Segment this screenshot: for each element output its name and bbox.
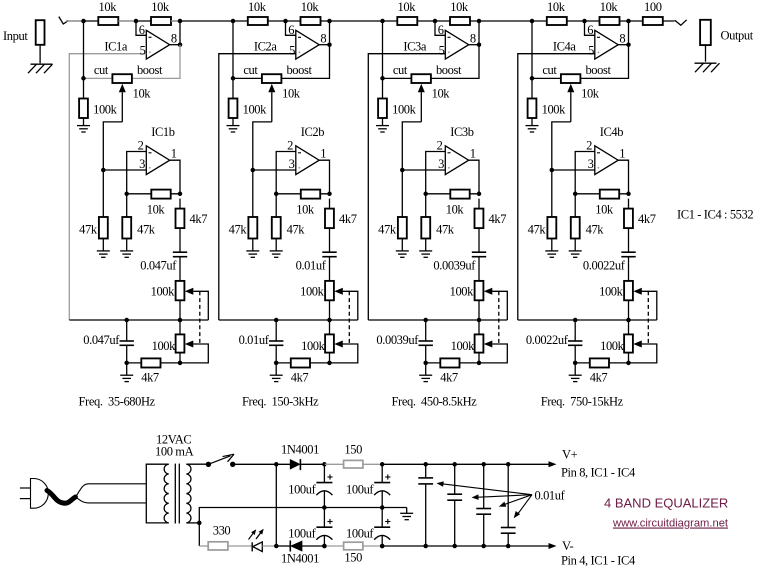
capacitor 0.01uf decoupling 4 — [507, 464, 509, 527]
switch S1 — [206, 462, 211, 467]
svg-text:boost: boost — [436, 63, 462, 77]
svg-text:6: 6 — [139, 23, 145, 37]
wire LED to node — [262, 545, 276, 547]
svg-text:boost: boost — [585, 63, 611, 77]
svg-text:5: 5 — [439, 43, 445, 57]
node bottom row left — [423, 361, 428, 366]
resistor R45 47k — [547, 217, 556, 239]
node decoupling bottom — [452, 544, 457, 549]
node bottom — [380, 544, 385, 549]
svg-text:47k: 47k — [137, 223, 156, 237]
svg-text:330: 330 — [213, 524, 231, 538]
wire output down to boost — [580, 45, 628, 79]
wire Vminus rail — [382, 545, 550, 547]
node mid junction — [134, 19, 139, 24]
svg-text:Output: Output — [721, 29, 754, 43]
svg-text:100k: 100k — [599, 284, 624, 298]
svg-text:4k7: 4k7 — [440, 371, 458, 385]
potentiometer VR4 10k cut-boost — [561, 74, 581, 83]
potentiometer VR11 100k — [176, 281, 185, 300]
svg-text:10k: 10k — [547, 0, 566, 14]
svg-text:10k: 10k — [147, 203, 166, 217]
ground below 47k right — [569, 250, 582, 252]
node decoupling top — [481, 462, 486, 467]
svg-text:2: 2 — [586, 138, 592, 152]
AC plug body — [31, 479, 49, 509]
wire pin3 input — [552, 169, 595, 171]
resistor R18 4k7 — [127, 362, 180, 364]
svg-text:V+: V+ — [562, 447, 578, 461]
wire pin1 output — [319, 160, 329, 194]
svg-text:Freq. 450-8.5kHz: Freq. 450-8.5kHz — [392, 394, 478, 408]
wire 47k to ground — [551, 239, 553, 251]
svg-text:8: 8 — [470, 32, 476, 46]
capacitor C22 0.01uf — [275, 320, 277, 341]
wire output down to boost — [132, 45, 180, 79]
transformer T1 core — [174, 464, 176, 524]
wire 47k2 to ground — [126, 239, 128, 251]
wire pin1 output — [170, 160, 180, 194]
svg-text:10k: 10k — [248, 0, 267, 14]
svg-text:3: 3 — [139, 157, 145, 171]
potentiometer VR1 10k cut-boost — [112, 74, 131, 83]
wire 4k7 to cap — [329, 228, 331, 252]
node decoupling top — [452, 462, 457, 467]
wire pin3 input — [103, 169, 146, 171]
resistor R44 10k feedback — [600, 190, 619, 199]
wire pin1 output — [469, 160, 479, 194]
callout arrows to decoupling caps — [441, 484, 532, 495]
node LED junction — [274, 544, 279, 549]
cord fork top — [75, 484, 146, 497]
ground below 47k left — [545, 250, 558, 252]
output jack tip symbol — [675, 20, 687, 26]
op-amp minus mark — [448, 36, 451, 38]
svg-text:4k7: 4k7 — [190, 212, 208, 226]
node cut rail junction — [81, 76, 86, 81]
ground output chassis — [695, 62, 717, 64]
op-amp IC3b — [445, 146, 468, 175]
wire pot2 to bottom row — [329, 353, 331, 363]
wire pin2 input — [575, 152, 595, 218]
wire wiper jog to inverting path — [103, 122, 122, 217]
wire bus — [518, 319, 657, 321]
wire feedback row — [127, 193, 180, 195]
node pin8 output — [477, 42, 482, 47]
node bus ladder — [477, 318, 482, 323]
capacitor 100uf negative rail — [323, 508, 325, 528]
op-amp IC1b — [146, 146, 169, 175]
ground mid rail — [406, 508, 408, 514]
svg-text:cut: cut — [542, 63, 557, 77]
potentiometer VR41 100k — [624, 281, 633, 300]
node feedback right — [327, 192, 332, 197]
wire pot1 wiper — [484, 288, 493, 295]
svg-text:6: 6 — [288, 23, 294, 37]
svg-text:IC4b: IC4b — [600, 125, 624, 139]
svg-text:6: 6 — [438, 23, 444, 37]
wire bus — [219, 319, 358, 321]
node mid junction — [433, 19, 438, 24]
node pin8 output — [626, 42, 631, 47]
wire cap to pot1 — [179, 257, 181, 281]
wire pin6 from mid junction — [435, 21, 445, 35]
wire pin6 from mid junction — [585, 21, 595, 35]
wire switch to diode — [233, 463, 291, 465]
node input junction — [530, 19, 535, 24]
wire pot2 to bottom row — [179, 353, 181, 363]
potentiometer VR42 100k — [628, 320, 630, 334]
wire pot1 to bus — [329, 300, 331, 320]
resistor R41 10k — [547, 17, 567, 25]
ground input chassis — [31, 63, 53, 65]
ground below 47k right — [270, 250, 283, 252]
wire pot1 wiper — [633, 288, 642, 295]
svg-text:IC3b: IC3b — [450, 125, 474, 139]
svg-text:10k: 10k — [581, 86, 600, 100]
op-amp minus mark — [298, 36, 301, 38]
svg-text:Pin 8, IC1 - IC4: Pin 8, IC1 - IC4 — [561, 466, 636, 480]
svg-text:2: 2 — [437, 138, 443, 152]
node mid junction — [582, 19, 587, 24]
resistor R31 10k — [397, 17, 417, 25]
resistor R42 10k — [600, 17, 620, 25]
wire pin3 input — [253, 169, 296, 171]
wire pot1 to bus — [478, 300, 480, 320]
capacitor 100uf positive rail — [381, 464, 383, 482]
ground below 47k right — [120, 250, 133, 252]
wire pot2 to bottom row — [478, 353, 480, 363]
svg-text:4k7: 4k7 — [590, 371, 608, 385]
svg-text:10k: 10k — [595, 203, 614, 217]
op-amp minus mark b — [298, 152, 301, 154]
svg-text:10k: 10k — [99, 0, 118, 14]
capacitor 0.01uf decoupling 1 — [425, 464, 427, 478]
resistor R22 10k — [301, 17, 321, 25]
svg-text:IC1b: IC1b — [151, 125, 175, 139]
svg-text:5: 5 — [588, 43, 594, 57]
resistor R25 47k — [248, 217, 257, 239]
cord fork bottom — [75, 497, 146, 503]
wire cap2 to ground — [126, 363, 128, 375]
svg-text:100uf: 100uf — [288, 482, 316, 496]
node feedback left — [274, 192, 279, 197]
wire wiper arrow of cut-boost pot — [420, 92, 422, 122]
resistor R48 4k7 — [575, 362, 628, 364]
wire pot1 wiper — [334, 288, 343, 295]
wire pin6 from mid junction — [136, 21, 146, 35]
AC cord — [47, 491, 75, 504]
svg-text:100: 100 — [644, 0, 662, 14]
wire 47k2 to ground — [425, 239, 427, 251]
node bottom row left — [124, 361, 129, 366]
svg-text:10k: 10k — [432, 86, 451, 100]
wire bus — [69, 319, 208, 321]
svg-text:100k: 100k — [451, 339, 476, 353]
wire 100k to ground — [382, 118, 384, 125]
wire pin5 feedback to bus — [518, 54, 595, 320]
LED indicator — [251, 542, 253, 551]
wire pin5 feedback to bus — [219, 54, 296, 320]
svg-text:1: 1 — [619, 147, 625, 161]
node bus cap2 — [423, 318, 428, 323]
input jack tip symbol — [59, 17, 69, 24]
svg-text:cut: cut — [393, 63, 408, 77]
wire 100k to ground — [232, 118, 234, 125]
svg-text:cut: cut — [243, 63, 258, 77]
node bottom row right — [327, 361, 332, 366]
transformer T1 primary — [146, 464, 168, 523]
capacitor C31 0.0039uf — [472, 251, 486, 253]
svg-text:IC3a: IC3a — [403, 40, 427, 54]
wire 47k2 to ground — [574, 239, 576, 251]
ground below 100k — [376, 125, 389, 127]
svg-text:0.0039uf: 0.0039uf — [376, 333, 419, 347]
node bus cap2 — [124, 318, 129, 323]
svg-text:100k: 100k — [151, 284, 176, 298]
wire pin5 feedback to bus — [69, 54, 146, 320]
op-amp plus mark b — [598, 167, 600, 169]
potentiometer VR21 100k — [325, 281, 334, 300]
wire feedback row — [276, 193, 329, 195]
resistor R43 100k — [528, 99, 537, 119]
node pin3 tap — [400, 168, 405, 173]
wire left rail vertical — [83, 21, 85, 78]
wire pot1 to bus — [628, 300, 630, 320]
node bottom row right — [626, 361, 631, 366]
op-amp plus mark — [598, 51, 600, 53]
wire pin8 output up — [319, 44, 329, 46]
svg-text:4k7: 4k7 — [141, 371, 159, 385]
wire main top signal bus — [66, 20, 675, 22]
svg-text:4k7: 4k7 — [291, 371, 309, 385]
node AC link top — [274, 462, 279, 467]
svg-text:boost: boost — [286, 63, 312, 77]
wire 47k to ground — [252, 239, 254, 251]
svg-text:10k: 10k — [600, 0, 619, 14]
wire output down to boost — [431, 45, 479, 79]
ground below 47k right — [419, 250, 432, 252]
wire pin8 output up — [469, 44, 479, 46]
op-amp minus mark b — [448, 152, 451, 154]
capacitor 0.01uf decoupling 2 — [454, 464, 456, 494]
node secondary bottom — [197, 521, 202, 526]
wire output resistor to ground — [705, 45, 707, 62]
svg-text:150: 150 — [344, 443, 362, 457]
svg-text:5: 5 — [289, 43, 295, 57]
svg-text:0.047uf: 0.047uf — [83, 333, 120, 347]
resistor R27 4k7 — [329, 199, 331, 209]
wire wiper arrow of cut-boost pot — [570, 92, 572, 122]
node feedback right — [626, 192, 631, 197]
node decoupling bottom — [481, 544, 486, 549]
svg-text:100k: 100k — [542, 103, 567, 117]
potentiometer VR32 100k — [478, 320, 480, 334]
svg-text:8: 8 — [619, 32, 625, 46]
svg-text:100 mA: 100 mA — [155, 445, 194, 459]
resistor R13 100k — [79, 99, 88, 119]
svg-text:3: 3 — [438, 157, 444, 171]
node cut rail junction — [380, 76, 385, 81]
resistor 150 plus — [324, 463, 343, 465]
svg-text:Pin 4, IC1 - IC4: Pin 4, IC1 - IC4 — [561, 554, 636, 568]
wire pot2 wiper — [334, 341, 343, 348]
svg-text:5: 5 — [140, 43, 146, 57]
wire 4k7 to cap — [478, 228, 480, 252]
resistor R34 10k feedback — [450, 190, 469, 199]
resistor R47 4k7 — [628, 199, 630, 209]
capacitor C21 0.01uf — [322, 251, 336, 253]
wire pin2 input — [276, 152, 296, 218]
wire secondary to mid rail — [199, 508, 406, 523]
svg-text:47k: 47k — [378, 223, 397, 237]
wire grey segment a — [118, 20, 136, 22]
svg-text:Freq. 150-3kHz: Freq. 150-3kHz — [242, 394, 319, 408]
svg-text:100k: 100k — [600, 339, 625, 353]
svg-text:0.0039uf: 0.0039uf — [433, 259, 476, 273]
wire 4k7 to cap — [628, 228, 630, 252]
resistor R46 47k — [571, 217, 580, 239]
resistor R33 100k — [378, 99, 387, 119]
node output junction — [477, 19, 482, 24]
svg-text:100uf: 100uf — [288, 527, 316, 541]
svg-text:100k: 100k — [152, 339, 177, 353]
svg-text:IC1 - IC4 : 5532: IC1 - IC4 : 5532 — [677, 208, 753, 222]
potentiometer VR22 100k — [329, 320, 331, 334]
potentiometer VR12 100k — [179, 320, 181, 334]
wire input resistor to ground — [39, 45, 41, 64]
svg-text:1: 1 — [320, 147, 326, 161]
ground below cap2 — [120, 374, 133, 376]
wire wiper jog to inverting path — [552, 122, 571, 217]
node feedback left — [573, 192, 578, 197]
svg-text:cut: cut — [94, 63, 109, 77]
node bus cap2 — [573, 318, 578, 323]
resistor R37 4k7 — [478, 199, 480, 209]
wire 47k to ground — [401, 239, 403, 251]
wire pin8 output up — [170, 44, 180, 46]
svg-text:10k: 10k — [296, 203, 315, 217]
wire pin6 from mid junction — [286, 21, 296, 35]
svg-text:8: 8 — [171, 32, 177, 46]
wire input stub — [66, 20, 84, 22]
node pin3 tap — [251, 168, 256, 173]
ground below cap2 — [419, 374, 432, 376]
svg-text:4 BAND EQUALIZER: 4 BAND EQUALIZER — [604, 496, 728, 511]
ground below cap2 — [270, 374, 283, 376]
op-amp plus mark — [299, 51, 301, 53]
svg-text:10k: 10k — [133, 86, 152, 100]
node mid rail — [380, 505, 385, 510]
node bus cap2 — [274, 318, 279, 323]
svg-text:10k: 10k — [151, 0, 170, 14]
svg-text:10k: 10k — [282, 86, 301, 100]
svg-text:47k: 47k — [528, 223, 547, 237]
svg-text:IC2b: IC2b — [301, 125, 325, 139]
wire left rail vertical — [232, 21, 234, 78]
wire AC link vertical — [275, 464, 277, 546]
node bottom row right — [477, 361, 482, 366]
wire wiper jog to inverting path — [402, 122, 421, 217]
capacitor C42 0.0022uf — [574, 320, 576, 341]
capacitor C32 0.0039uf — [425, 320, 427, 341]
node input junction — [231, 19, 236, 24]
wire cap2 to ground — [425, 363, 427, 375]
wire pin2 input — [426, 152, 446, 218]
node bottom row left — [274, 361, 279, 366]
node cut rail junction — [231, 76, 236, 81]
wire left rail vertical — [382, 21, 384, 78]
svg-text:100k: 100k — [301, 339, 326, 353]
svg-text:10k: 10k — [450, 0, 469, 14]
svg-text:www.circuitdiagram.net: www.circuitdiagram.net — [612, 518, 729, 530]
wire secondary to LED row — [198, 523, 200, 546]
svg-text:1: 1 — [470, 147, 476, 161]
diode D2 1N4001 — [292, 542, 302, 551]
resistor R21 10k — [248, 17, 268, 25]
svg-text:0.0022uf: 0.0022uf — [583, 259, 626, 273]
resistor R35 47k — [398, 217, 407, 239]
op-amp IC4b — [595, 146, 618, 175]
resistor R15 47k — [99, 217, 108, 239]
op-amp IC2b — [296, 146, 319, 175]
node pin3 tap — [550, 168, 555, 173]
ground below 47k left — [246, 250, 259, 252]
node Vminus filter — [380, 544, 385, 549]
svg-text:Freq. 35-680Hz: Freq. 35-680Hz — [79, 394, 156, 408]
svg-text:10k: 10k — [301, 0, 320, 14]
resistor output 100 — [643, 17, 663, 25]
capacitor C11 0.047uf — [173, 251, 187, 253]
potentiometer VR3 10k cut-boost — [411, 74, 431, 83]
wire 47k to ground — [102, 239, 104, 251]
wire 47k2 to ground — [275, 239, 277, 251]
wire cap to pot1 — [329, 257, 331, 281]
node bus ladder — [327, 318, 332, 323]
node output junction — [327, 19, 332, 24]
svg-text:3: 3 — [289, 157, 295, 171]
svg-text:47k: 47k — [287, 223, 306, 237]
wire output down to boost — [281, 45, 329, 79]
op-amp plus mark — [448, 51, 450, 53]
svg-text:6: 6 — [587, 23, 593, 37]
node input junction — [380, 19, 385, 24]
wire grey segment b — [171, 20, 180, 22]
node output junction — [626, 19, 631, 24]
op-amp IC2a — [296, 30, 319, 59]
wire pot1 to bus — [179, 300, 181, 320]
op-amp minus mark — [149, 36, 152, 38]
svg-text:2: 2 — [287, 138, 293, 152]
op-amp plus mark b — [448, 167, 450, 169]
op-amp IC4a — [595, 30, 618, 59]
svg-text:47k: 47k — [79, 223, 98, 237]
wire wiper jog to inverting path — [253, 122, 272, 217]
transformer T1 secondary — [186, 464, 191, 523]
svg-text:4k7: 4k7 — [638, 212, 656, 226]
svg-text:0.01uf: 0.01uf — [239, 333, 270, 347]
wire feedback row — [575, 193, 628, 195]
svg-text:1N4001: 1N4001 — [281, 552, 319, 566]
svg-text:150: 150 — [344, 551, 362, 565]
dashed gang link — [348, 291, 350, 344]
node feedback right — [178, 192, 183, 197]
node output junction — [178, 19, 183, 24]
wire pin5 feedback to bus — [368, 54, 445, 320]
node bus ladder — [178, 318, 183, 323]
svg-text:4k7: 4k7 — [339, 212, 357, 226]
capacitor 100uf negative rail — [381, 508, 383, 528]
